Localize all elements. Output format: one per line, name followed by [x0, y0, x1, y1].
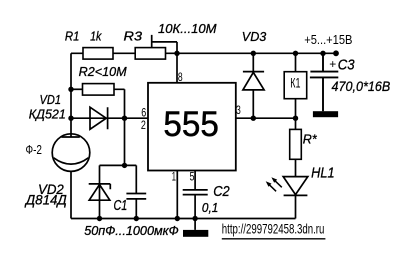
node R2 left — [68, 87, 73, 92]
wire R3 wiper — [152, 35, 177, 48]
svg-text:3: 3 — [236, 103, 241, 117]
node pin3 VD3 — [251, 116, 256, 121]
svg-text:http://299792458.3dn.ru: http://299792458.3dn.ru — [222, 220, 325, 236]
svg-text:50пФ...1000мкФ: 50пФ...1000мкФ — [84, 223, 179, 238]
ground bar right — [313, 111, 338, 117]
svg-text:+: + — [329, 57, 336, 71]
wire ground rail — [71, 218, 296, 220]
underline of url — [222, 238, 326, 240]
svg-text:Д814Д: Д814Д — [24, 193, 67, 208]
wire R2 right lead down — [114, 89, 125, 165]
wire left vertical upper — [70, 53, 72, 137]
ground bar middle — [183, 230, 208, 237]
node K1 top — [293, 51, 298, 56]
phototube F-2 — [52, 134, 90, 172]
svg-text:Ф-2: Ф-2 — [26, 143, 43, 157]
node C2 ground — [192, 216, 197, 221]
capacitor C2 — [183, 190, 208, 195]
wire pin8 vertical — [176, 42, 178, 83]
svg-text:555: 555 — [163, 105, 219, 144]
wire left vertical lower — [70, 171, 72, 219]
IC DA1 555 timer — [148, 83, 236, 171]
svg-text:R*: R* — [303, 132, 318, 147]
svg-text:R2<10М: R2<10М — [79, 64, 127, 79]
svg-text:470,0*16В: 470,0*16В — [332, 78, 391, 94]
svg-text:8: 8 — [178, 70, 183, 84]
resistor R2 — [83, 84, 115, 96]
wire pin5 — [194, 171, 196, 190]
LED arrow 1 — [275, 181, 282, 187]
node C1 ground — [134, 216, 139, 221]
svg-text:КД521: КД521 — [29, 106, 66, 121]
wire VD2 to C1 top — [100, 164, 137, 166]
node pin1 ground — [175, 216, 180, 221]
svg-text:1k: 1k — [90, 29, 103, 44]
LED arrow 2 — [270, 185, 277, 191]
svg-text:0,1: 0,1 — [202, 200, 218, 215]
capacitor C1 — [126, 165, 146, 218]
svg-text:2: 2 — [141, 118, 146, 132]
svg-text:К1: К1 — [290, 76, 300, 91]
wire VD1 row to pin 6/2 — [71, 117, 148, 119]
node supply terminal — [333, 50, 339, 56]
resistor R1 — [83, 48, 113, 60]
node pin3 K1 — [293, 116, 298, 121]
svg-text:HL1: HL1 — [311, 165, 335, 181]
wire R2 left lead — [71, 88, 83, 90]
svg-text:R1: R1 — [65, 29, 80, 44]
svg-text:C1: C1 — [114, 198, 128, 214]
wire pin1 — [176, 171, 178, 219]
node VD1 left — [68, 116, 73, 121]
LED HL1 — [283, 177, 308, 219]
node VD2 ground — [97, 216, 102, 221]
svg-text:+5...+15В: +5...+15В — [304, 33, 352, 47]
diode VD1 — [90, 107, 108, 129]
relay K1 — [295, 53, 297, 71]
zener VD2 — [89, 165, 111, 218]
svg-text:C3: C3 — [338, 58, 355, 74]
node C3 top — [320, 51, 325, 56]
svg-text:10К...10М: 10К...10М — [158, 21, 217, 36]
node C1 top — [122, 163, 127, 168]
wire pin3 — [236, 117, 296, 119]
svg-text:VD1: VD1 — [40, 92, 62, 107]
wire mid ground lead — [194, 219, 196, 230]
svg-text:5: 5 — [190, 169, 195, 183]
resistor R* — [295, 118, 297, 129]
svg-text:C2: C2 — [213, 184, 230, 200]
svg-text:R3: R3 — [124, 29, 143, 44]
svg-text:1: 1 — [172, 169, 177, 183]
node VD3 top — [251, 51, 256, 56]
node VD1 right — [122, 116, 127, 121]
diode VD3 — [243, 53, 264, 118]
resistor R3 — [135, 48, 165, 60]
wire top rail — [71, 52, 339, 54]
node R1/R3 junction to pin8 — [174, 51, 179, 56]
capacitor C3 — [310, 53, 338, 111]
svg-text:VD3: VD3 — [242, 29, 267, 44]
